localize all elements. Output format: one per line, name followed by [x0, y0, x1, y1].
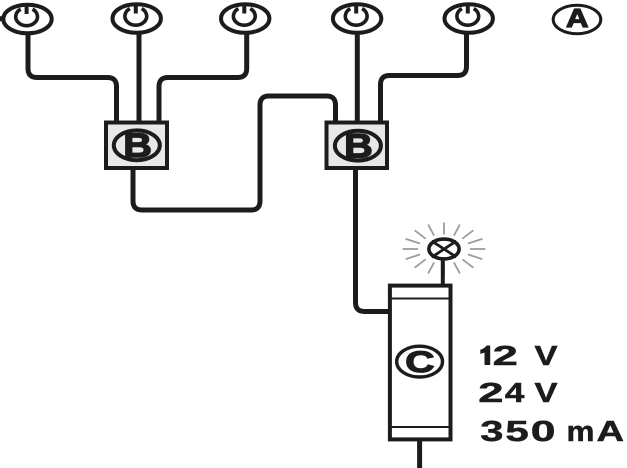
wire: controller B2 output to driver C input: [356, 168, 390, 312]
svg-text:B: B: [344, 126, 373, 165]
svg-text:4: 4: [505, 376, 525, 408]
label 350 mA: [480, 414, 624, 447]
label 24 V: [478, 376, 557, 408]
wire: controller B1 output to controller B2 input 1: [133, 96, 336, 210]
wire: power button 3 to controller B1 input 3: [159, 32, 247, 122]
svg-text:C: C: [405, 345, 434, 379]
remote control label A: [553, 4, 601, 33]
wire: driver C bottom output: [417, 439, 422, 468]
wire: power button 2 to controller B1 input 2: [137, 32, 142, 122]
controller B1 box: [106, 123, 167, 169]
lamp stem wire: [441, 257, 445, 286]
svg-text:3: 3: [480, 415, 503, 447]
power button 4: [333, 4, 381, 33]
lamp rays: [403, 223, 486, 276]
svg-text:5: 5: [505, 414, 528, 447]
lamp symbol (circle with cross): [429, 239, 459, 259]
wire: power button 4 to controller B2 input 2: [355, 32, 360, 122]
svg-text:A: A: [566, 4, 589, 33]
svg-text:B: B: [123, 126, 152, 165]
power button 3: [221, 4, 269, 33]
controller B2 box: [327, 123, 388, 169]
label 12 V: [480, 340, 557, 371]
svg-text:V: V: [535, 340, 558, 371]
svg-text:A: A: [596, 415, 624, 448]
power button 1: [3, 5, 51, 34]
wire: power button 1 to controller B1 input 1: [28, 32, 117, 122]
svg-text:m: m: [566, 416, 594, 448]
svg-text:0: 0: [531, 415, 556, 447]
svg-text:V: V: [535, 377, 558, 408]
power button 2: [113, 4, 161, 33]
svg-text:2: 2: [493, 340, 518, 371]
wire stub at left edge to power button 1: [0, 16, 3, 21]
svg-text:2: 2: [478, 377, 503, 408]
power button 5: [445, 4, 493, 33]
driver C box: [390, 286, 451, 440]
wire: power button 5 to controller B2 input 3: [381, 32, 467, 122]
